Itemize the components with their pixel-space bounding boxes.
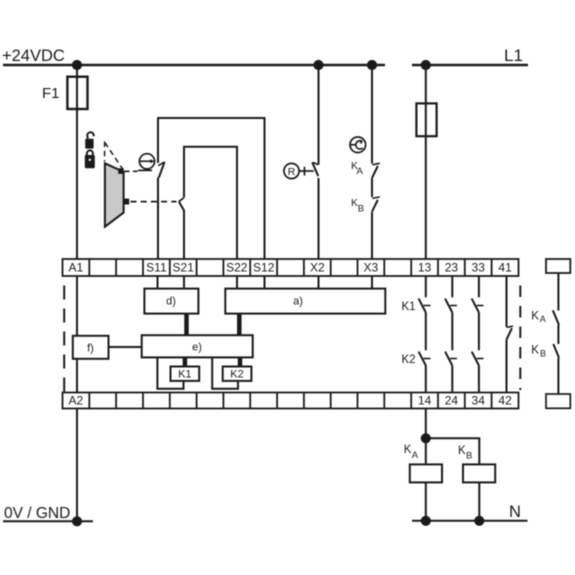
svg-text:R: R (288, 166, 296, 178)
wire 33 middle (478, 313, 480, 351)
svg-text:K2: K2 (230, 369, 243, 381)
terminal labels row 2 (69, 394, 513, 408)
wire 33 lower (478, 366, 480, 393)
node actuator bottom (123, 199, 129, 205)
label K1 contacts (402, 301, 416, 313)
contact KB on X3 (372, 197, 380, 212)
guard interlock actuator trapezoid (105, 163, 124, 226)
junction dot L1 rail (421, 60, 431, 70)
junction dot X3 rail (367, 60, 377, 70)
svg-text:S22: S22 (226, 261, 248, 275)
wire 41 upper (506, 276, 508, 327)
wire loop S11-S12 outer U (157, 118, 265, 259)
wire X3 lower (371, 212, 373, 259)
wire K2 return loop (212, 357, 238, 388)
wire S11 lower (157, 178, 159, 260)
label KB coil (458, 445, 472, 462)
label KB at X3 (351, 197, 364, 215)
svg-text:41: 41 (498, 261, 512, 275)
wire A1 to block f (76, 276, 78, 336)
svg-text:S21: S21 (173, 261, 195, 275)
terminal strip row 1 (63, 259, 519, 276)
wire f to e (109, 346, 142, 348)
wire 13 upper (425, 276, 427, 297)
label KA feedback (531, 311, 546, 325)
label K2 contacts (402, 354, 416, 366)
junction dot 14 branch (421, 433, 431, 443)
wire 33 upper (478, 276, 480, 297)
terminal feedback top box (546, 259, 570, 273)
wire A2 down (76, 409, 78, 522)
junction dot 0V (72, 516, 82, 526)
svg-text:A2: A2 (69, 394, 84, 408)
fuse F2 unlabeled (416, 103, 436, 136)
junction dot KA N (421, 516, 431, 526)
wire KA coil to N (425, 482, 427, 520)
svg-text:f): f) (87, 343, 94, 355)
svg-text:K: K (404, 444, 412, 456)
net L1 label (504, 46, 523, 65)
dashed device border right (519, 286, 521, 391)
svg-text:S12: S12 (253, 261, 275, 275)
wire loop S21-S22 inner U (183, 147, 238, 259)
wire K1 return loop (157, 357, 183, 388)
contact K2 on 23-24 (445, 352, 457, 366)
contact blade X2 reset (312, 162, 318, 176)
wire 23 upper (451, 276, 453, 297)
wire S21 lower (183, 211, 185, 259)
wire 23 middle (451, 313, 453, 351)
svg-text:13: 13 (418, 261, 432, 275)
wire S12 to block a (264, 276, 266, 289)
padlock open icon (85, 132, 94, 148)
wire 23 lower (451, 366, 453, 393)
relay K1 box (171, 367, 200, 381)
contact blade interlock channel 1 (158, 162, 164, 178)
wire S11 to block d (157, 276, 159, 289)
wire S22 to block a (236, 276, 238, 289)
terminal labels row 1 (69, 261, 513, 275)
wire 14 down (425, 409, 427, 465)
wire +24VDC rail (3, 64, 385, 66)
svg-text:0V / GND: 0V / GND (4, 505, 70, 522)
terminal feedback bottom box (546, 394, 570, 408)
net +24VDC label (2, 47, 65, 65)
svg-text:d): d) (166, 296, 176, 308)
svg-text:14: 14 (418, 394, 432, 408)
svg-text:K: K (531, 311, 539, 323)
wire rail to A1 (76, 65, 78, 259)
bus a to e (237, 314, 242, 336)
contact NC on 41-42 (506, 326, 513, 340)
svg-text:F1: F1 (42, 85, 60, 102)
contact blade interlock channel 2 (179, 198, 185, 212)
svg-text:42: 42 (498, 394, 512, 408)
wire KB coil to N (478, 482, 480, 520)
contact K1 on 33-34 (472, 299, 484, 313)
svg-text:B: B (466, 450, 472, 461)
wire N rail (412, 520, 528, 522)
label KA at X3 (351, 160, 364, 177)
label F1 (42, 85, 60, 102)
contact K2 on 33-34 (472, 352, 484, 366)
wire 41 lower (506, 340, 508, 393)
coil KA (410, 464, 442, 482)
svg-text:e): e) (192, 342, 202, 354)
label KB feedback (531, 344, 546, 358)
svg-text:+24VDC: +24VDC (2, 47, 65, 65)
reset button R circle (284, 163, 299, 178)
actuator release symbol circle (138, 154, 155, 171)
dashed device border left (63, 286, 65, 393)
auto-start symbol circle (350, 137, 366, 153)
svg-text:a): a) (293, 296, 303, 308)
junction dot X2 rail (313, 60, 323, 70)
block f (73, 336, 109, 359)
relay K2 box (223, 367, 252, 381)
svg-text:X2: X2 (310, 261, 325, 275)
wire 0V rail (3, 520, 93, 522)
bus e to K2 (238, 357, 243, 366)
svg-text:L1: L1 (504, 46, 523, 65)
dashed link padlocks diagonal (105, 143, 123, 169)
wire feedback bottom (557, 358, 559, 394)
bus e to K1 (183, 357, 188, 366)
svg-text:A: A (357, 166, 364, 177)
dashed actuator link channel 1 (125, 170, 138, 172)
svg-text:K: K (531, 344, 539, 356)
svg-text:34: 34 (472, 394, 486, 408)
wire rail to X3 upper (371, 65, 373, 164)
wire L1 rail (412, 64, 528, 66)
svg-text:B: B (358, 203, 364, 214)
svg-text:K1: K1 (178, 369, 191, 381)
contact K1 on 13-14 (419, 299, 431, 313)
svg-text:K1: K1 (402, 301, 416, 313)
wire 13 middle (425, 313, 427, 351)
wire f to A2 (76, 359, 78, 393)
wire L1 to terminal 13 (425, 65, 427, 259)
wire rail to X2 upper (318, 65, 320, 165)
block a (225, 289, 385, 314)
block e (142, 335, 253, 357)
net N label (509, 503, 521, 521)
svg-text:K: K (458, 445, 466, 457)
bus d to e (184, 314, 189, 336)
svg-text:S11: S11 (146, 261, 167, 275)
junction dot A1 rail (72, 60, 82, 70)
junction dot KB N (474, 516, 484, 526)
contact K1 on 23-24 (445, 299, 457, 313)
contact KA on X3 (372, 163, 380, 178)
wire S21 to block d (183, 276, 185, 289)
wire X2 lower (318, 178, 320, 259)
wire X3 middle (371, 178, 373, 197)
svg-text:X3: X3 (364, 261, 379, 275)
net 0V GND label (4, 505, 70, 522)
svg-text:A: A (412, 450, 419, 461)
reset button actuator rod (299, 167, 314, 176)
svg-text:A: A (540, 314, 546, 324)
coil KB (463, 464, 495, 482)
wire X3 to block a (371, 276, 373, 289)
node actuator top (118, 168, 124, 174)
contact KA feedback (553, 310, 559, 325)
wire 13 lower (425, 366, 427, 393)
svg-text:A1: A1 (69, 261, 84, 275)
wire X2 to block a (318, 276, 320, 289)
label KA coil (404, 444, 419, 461)
dashed actuator link channel 2 (131, 201, 177, 203)
block d (144, 289, 198, 314)
svg-text:B: B (540, 348, 546, 358)
contact K2 on 13-14 (419, 352, 431, 366)
dashed link padlocks vertical (104, 142, 106, 162)
svg-text:33: 33 (472, 261, 486, 275)
padlock closed icon (85, 150, 95, 168)
wire branch to KB coil (426, 438, 480, 464)
contact KB feedback (553, 344, 559, 358)
fuse F1 (67, 77, 87, 109)
wire feedback middle (557, 325, 559, 344)
wire feedback top (557, 273, 559, 310)
svg-text:N: N (509, 503, 521, 521)
svg-text:K2: K2 (402, 354, 416, 366)
svg-text:23: 23 (445, 261, 459, 275)
terminal strip row 2 (63, 393, 519, 409)
svg-text:24: 24 (445, 394, 459, 408)
